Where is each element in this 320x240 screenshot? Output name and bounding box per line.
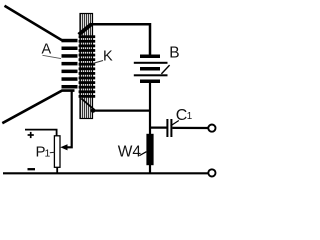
wire winding A bottom to wiper	[66, 91, 72, 148]
pointer K	[93, 61, 103, 64]
svg-text:1: 1	[187, 111, 192, 122]
wire top to battery corner	[91, 24, 150, 55]
output terminal top	[208, 125, 215, 132]
svg-text:1: 1	[45, 148, 51, 160]
svg-text:W4: W4	[118, 144, 142, 161]
potentiometer P1	[54, 136, 60, 168]
wiper arrow	[60, 144, 67, 150]
pointer A	[43, 55, 62, 58]
core K (hatched)	[80, 14, 93, 119]
secondary bottom lead	[81, 99, 95, 111]
pointer B	[161, 65, 169, 74]
svg-text:K: K	[103, 48, 113, 64]
resistor W4	[146, 134, 153, 165]
winding on core (secondary)	[79, 35, 96, 97]
wire core bottom to main vertical	[93, 109, 150, 111]
secondary top lead	[79, 24, 92, 35]
minus sign	[28, 168, 36, 170]
junction dot	[91, 108, 96, 113]
wire battery to W4	[149, 83, 151, 135]
pointer P1	[50, 151, 55, 154]
output terminal bottom	[208, 169, 215, 176]
pointer W4	[139, 152, 146, 156]
wire W4 to bottom rail	[149, 165, 151, 174]
winding A (left coil bars)	[62, 39, 78, 89]
bottom rail	[3, 172, 208, 174]
pointer C1	[171, 121, 179, 126]
wire plus terminal to P1 top	[25, 130, 57, 136]
svg-text:B: B	[169, 45, 179, 62]
horn top line	[5, 6, 71, 41]
capacitor C1 plates	[166, 119, 172, 137]
wire C1 to output terminal	[172, 127, 207, 129]
wire P1 bottom to rail	[56, 167, 58, 173]
plus sign	[28, 132, 34, 138]
capacitor C1 wire left	[150, 126, 167, 128]
battery B	[134, 55, 168, 84]
horn bottom line	[2, 91, 74, 124]
